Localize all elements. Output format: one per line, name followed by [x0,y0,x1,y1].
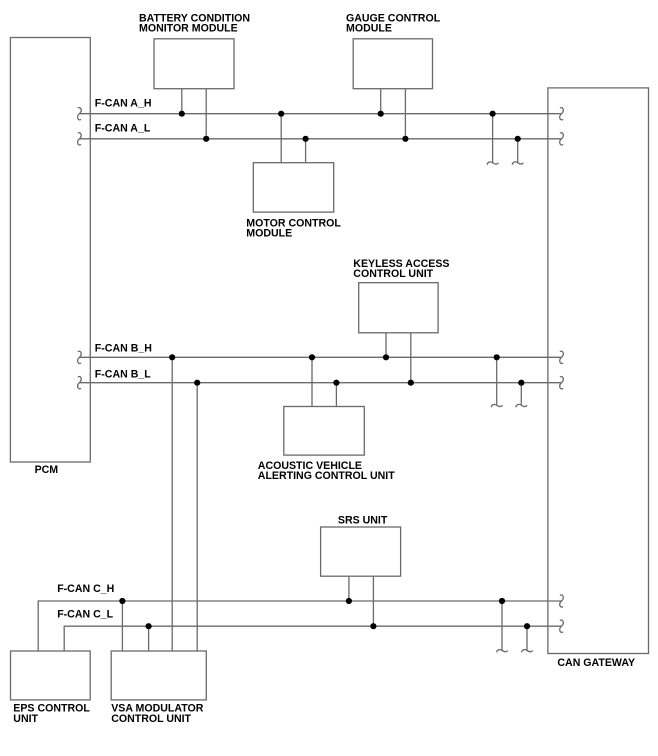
wire VSA pin 1 to C_H [121,601,123,651]
junction dot stub B_L [518,380,524,386]
svg-text:F-CAN B_L: F-CAN B_L [95,368,151,380]
wire motor module pin 1 to A_H [280,114,282,163]
gauge control module box [353,39,432,89]
wire A_L right stub [517,139,519,163]
CAN gateway box [548,88,649,654]
break squiggle A_H left [78,108,82,120]
wire keyless unit pin 1 to B_H [385,333,387,358]
SRS unit box [321,527,401,576]
break squiggle B_L left [78,377,82,389]
wire motor module pin 2 to A_L [305,139,307,163]
junction dot stub A_L [515,136,521,142]
junction dot stub A_H [490,111,496,117]
svg-text:F-CAN C_L: F-CAN C_L [57,609,113,621]
svg-text:MONITOR MODULE: MONITOR MODULE [139,23,238,35]
junction dot VSA C_L [146,623,152,629]
svg-text:UNIT: UNIT [13,713,38,725]
stub tilde B_L [516,404,527,407]
wire C_H right stub [501,601,503,650]
break squiggle C_L right [560,620,564,632]
svg-text:ALERTING CONTROL UNIT: ALERTING CONTROL UNIT [258,470,395,482]
motor control module box [253,163,333,212]
svg-text:F-CAN C_H: F-CAN C_H [57,583,114,595]
stub tilde C_H [497,650,508,653]
wire battery module pin 1 to A_H [181,89,183,114]
wire F-CAN C_L bus [64,625,561,627]
wire A_H right stub [492,114,494,163]
svg-text:PCM: PCM [35,464,59,476]
wire VSA pin 3 to B_H [171,357,173,651]
wire battery module pin 2 to A_L [205,89,207,139]
wire VSA pin 4 to B_L [196,383,198,651]
junction dot VSA C_H [119,598,125,604]
junction dot acoustic B_L [333,380,339,386]
wire SRS unit pin 2 to C_L [372,576,374,626]
svg-text:MODULE: MODULE [246,227,292,239]
wire VSA pin 2 to C_L [148,626,150,651]
stub tilde B_H [491,404,502,407]
junction dot gauge A_H [378,111,384,117]
break squiggle B_L right [560,377,564,389]
junction dot keyless B_H [383,354,389,360]
wire F-CAN A_L bus [80,138,562,140]
battery condition monitor module box [154,39,234,89]
keyless access control unit box [359,283,438,333]
svg-text:CAN GATEWAY: CAN GATEWAY [557,657,635,669]
PCM box [10,38,90,463]
wire C_H down to EPS pin 1 [37,600,39,651]
stub tilde A_L [512,162,523,165]
wire acoustic unit pin 2 to B_L [335,383,337,407]
break squiggle C_H right [560,595,564,607]
junction dot stub C_L [524,623,530,629]
wire C_L right stub [526,626,528,650]
break squiggle A_L left [78,133,82,145]
wire gauge module pin 1 to A_H [380,89,382,114]
wire keyless unit pin 2 to B_L [410,333,412,383]
stub tilde C_L [522,650,533,653]
wire gauge module pin 2 to A_L [404,89,406,139]
svg-text:F-CAN B_H: F-CAN B_H [95,342,152,354]
svg-text:SRS UNIT: SRS UNIT [338,515,388,527]
junction dot acoustic B_H [309,354,315,360]
break squiggle B_H left [78,351,82,363]
junction dot SRS C_L [370,623,376,629]
junction dot battery A_L [203,136,209,142]
svg-text:F-CAN A_L: F-CAN A_L [95,123,151,135]
EPS control unit box [11,651,91,700]
junction dot stub C_H [499,598,505,604]
svg-text:F-CAN A_H: F-CAN A_H [95,98,152,110]
svg-text:MODULE: MODULE [346,23,392,35]
VSA modulator control unit box [111,651,206,700]
junction dot gauge A_L [402,136,408,142]
junction dot motor A_L [303,136,309,142]
wire B_L right stub [520,383,522,405]
junction dot VSA B_L [194,380,200,386]
wire F-CAN A_H bus [80,113,562,115]
wire C_L down to EPS pin 2 [63,626,65,651]
break squiggle A_L right [560,133,564,145]
junction dot VSA B_H [169,354,175,360]
break squiggle A_H right [560,108,564,120]
wire acoustic unit pin 1 to B_H [311,357,313,406]
acoustic vehicle alerting control unit box [284,407,365,456]
junction dot motor A_H [278,111,284,117]
stub tilde A_H [487,162,498,165]
junction dot keyless B_L [408,380,414,386]
wire F-CAN B_H bus [80,356,562,358]
svg-text:CONTROL UNIT: CONTROL UNIT [111,713,191,725]
wire B_H right stub [496,357,498,405]
wire F-CAN C_H bus [38,600,561,602]
junction dot battery A_H [179,111,185,117]
wire SRS unit pin 1 to C_H [348,576,350,601]
wire F-CAN B_L bus [80,382,562,384]
junction dot SRS C_H [346,598,352,604]
break squiggle B_H right [560,351,564,363]
junction dot stub B_H [494,354,500,360]
svg-text:CONTROL UNIT: CONTROL UNIT [353,268,433,280]
